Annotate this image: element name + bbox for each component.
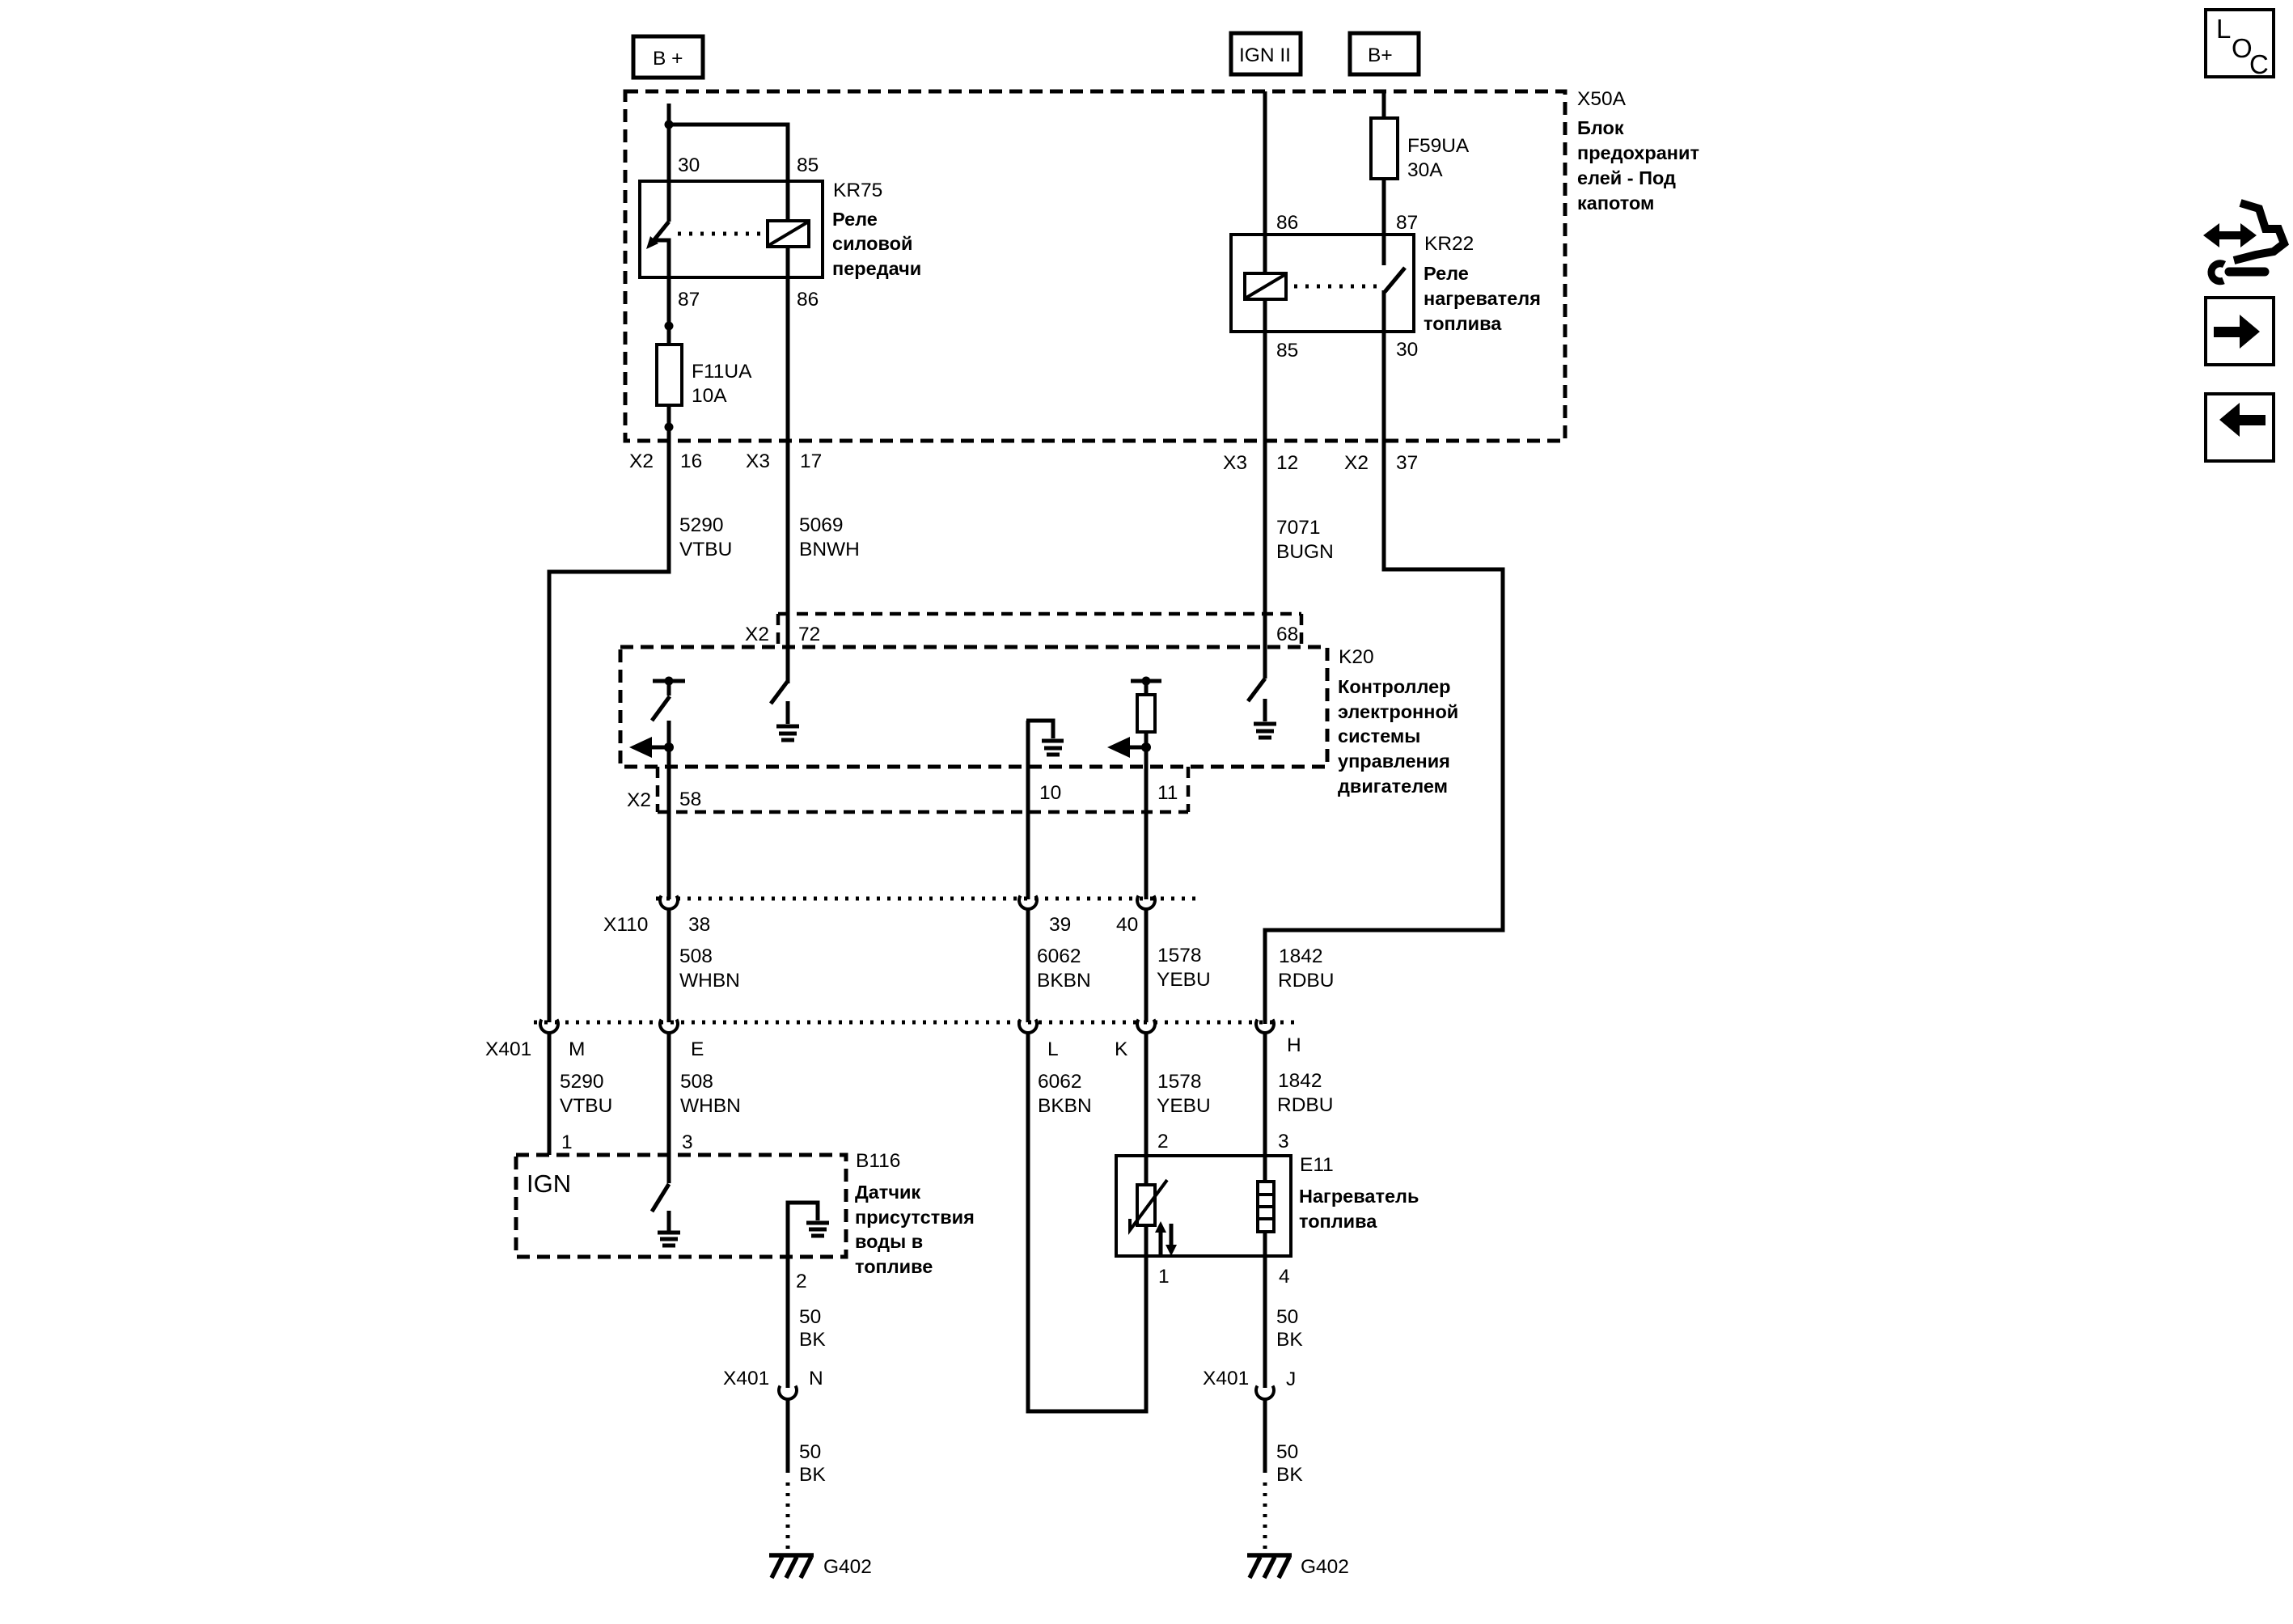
- dotted wire to ground left: [786, 1482, 790, 1550]
- svg-text:E11: E11: [1300, 1154, 1334, 1176]
- svg-text:B116: B116: [856, 1150, 900, 1172]
- nav arrow right box: [2206, 298, 2274, 365]
- wire B+1 drop: [667, 104, 671, 183]
- E11 pin2 wire inside: [1144, 1225, 1149, 1256]
- wire KR75 pin 86 down: [786, 247, 790, 442]
- wire IGN II drop to KR22 pin 86: [1263, 91, 1267, 274]
- svg-text:BK: BK: [799, 1464, 826, 1486]
- connector bump X401-M: [540, 1020, 558, 1034]
- connector bump X401-H: [1256, 1020, 1274, 1034]
- svg-text:E: E: [691, 1038, 704, 1060]
- svg-text:KR75: KR75: [833, 180, 882, 201]
- wire 1842 feed from X2-37 around K20: [1265, 442, 1503, 1024]
- svg-text:Реле: Реле: [832, 209, 878, 230]
- ground symbol under pin 72 switch: [776, 726, 799, 740]
- svg-text:передачи: передачи: [832, 258, 921, 279]
- svg-text:присутствия: присутствия: [855, 1207, 975, 1228]
- dotted wire to ground right: [1263, 1482, 1267, 1550]
- svg-text:X2: X2: [629, 450, 654, 472]
- svg-text:F59UA: F59UA: [1407, 135, 1470, 157]
- relay KR75 coil: [768, 221, 809, 247]
- svg-text:RDBU: RDBU: [1277, 1094, 1333, 1116]
- svg-text:X401: X401: [485, 1038, 531, 1060]
- wire to KR75 coil pin 85: [669, 125, 788, 222]
- svg-text:1: 1: [1158, 1266, 1170, 1288]
- relay KR75 fixed contact to pin 87: [652, 240, 669, 345]
- label Реле силовой передачи: [832, 209, 921, 279]
- svg-text:508: 508: [679, 945, 713, 967]
- nav arrow left box: [2206, 394, 2274, 461]
- heater E11 box: [1116, 1156, 1291, 1256]
- connector row X401 dotted: [534, 1021, 1294, 1025]
- K20 internal resistor pin 11: [1131, 681, 1161, 899]
- power feed B+ box 2: [1350, 33, 1419, 74]
- svg-text:2: 2: [796, 1271, 807, 1292]
- svg-text:силовой: силовой: [832, 233, 912, 254]
- svg-text:16: 16: [680, 450, 702, 472]
- svg-text:BUGN: BUGN: [1276, 541, 1334, 563]
- svg-text:VTBU: VTBU: [679, 539, 732, 560]
- power feed IGN II box: [1231, 33, 1301, 74]
- svg-text:5069: 5069: [799, 514, 844, 536]
- wire 50 BK to G402 left: [786, 1399, 790, 1473]
- svg-text:10A: 10A: [692, 385, 727, 407]
- svg-text:508: 508: [680, 1071, 713, 1093]
- svg-text:топливе: топливе: [855, 1256, 933, 1277]
- E11 pin4 wire inside: [1263, 1232, 1267, 1256]
- wire below fuse F11UA: [667, 405, 671, 442]
- svg-text:H: H: [1287, 1034, 1301, 1056]
- svg-text:1: 1: [561, 1131, 573, 1153]
- svg-text:BNWH: BNWH: [799, 539, 860, 560]
- svg-text:WHBN: WHBN: [679, 970, 740, 992]
- svg-text:85: 85: [797, 154, 819, 176]
- label Нагреватель топлива: [1299, 1186, 1419, 1232]
- K20 internal switch pin 68 to ground: [1248, 679, 1265, 721]
- svg-text:топлива: топлива: [1424, 313, 1502, 334]
- controller K20 dashed box: [620, 647, 1327, 767]
- K20 top pin row dashed: [778, 614, 1301, 647]
- svg-text:58: 58: [679, 789, 701, 810]
- svg-text:WHBN: WHBN: [680, 1095, 741, 1117]
- svg-text:X401: X401: [723, 1368, 769, 1389]
- wire 5069 BNWH run into K20 pin 72: [786, 442, 790, 683]
- wire 1578 YEBU mid segment: [1144, 909, 1149, 1022]
- B116 pin 2 hook ground: [788, 1203, 829, 1258]
- svg-text:85: 85: [1276, 340, 1298, 362]
- service icon wrench with arrows: [2203, 203, 2284, 281]
- ground symbol pin 10: [1042, 741, 1064, 755]
- label Реле нагревателя топлива: [1424, 263, 1541, 334]
- connector bump X401-L: [1019, 1020, 1037, 1034]
- wire F59UA to KR22 pin 87: [1382, 179, 1386, 235]
- svg-text:7071: 7071: [1276, 517, 1321, 539]
- svg-text:38: 38: [688, 914, 710, 936]
- svg-text:B+: B+: [1368, 44, 1393, 66]
- svg-text:елей - Под: елей - Под: [1577, 167, 1676, 188]
- svg-text:KR22: KR22: [1424, 233, 1474, 255]
- svg-text:воды в: воды в: [855, 1231, 923, 1252]
- svg-text:72: 72: [798, 624, 820, 645]
- svg-text:30: 30: [1396, 339, 1418, 361]
- svg-text:87: 87: [1396, 212, 1418, 234]
- svg-text:двигателем: двигателем: [1338, 776, 1448, 797]
- connector bump X110-39: [1019, 896, 1037, 910]
- wire M to B116 pin1: [548, 1033, 552, 1155]
- svg-text:30: 30: [678, 154, 700, 176]
- svg-text:G402: G402: [1301, 1556, 1349, 1578]
- svg-text:X3: X3: [746, 450, 770, 472]
- E11 thermistor: [1130, 1180, 1167, 1230]
- ground symbol under pin 68 switch: [1254, 724, 1276, 738]
- svg-text:K20: K20: [1339, 646, 1374, 668]
- E11 heating element: [1258, 1182, 1274, 1232]
- svg-text:1578: 1578: [1157, 945, 1202, 966]
- svg-text:37: 37: [1396, 452, 1418, 474]
- fuse F59UA wire from B+2: [1382, 91, 1386, 118]
- svg-text:68: 68: [1276, 624, 1298, 645]
- connector bump X401-E: [660, 1020, 678, 1034]
- svg-text:топлива: топлива: [1299, 1211, 1377, 1232]
- svg-text:BK: BK: [799, 1329, 826, 1351]
- svg-text:BKBN: BKBN: [1038, 1095, 1092, 1117]
- svg-text:1842: 1842: [1279, 945, 1323, 967]
- svg-text:Нагреватель: Нагреватель: [1299, 1186, 1419, 1207]
- svg-text:управления: управления: [1338, 751, 1450, 772]
- svg-text:50: 50: [799, 1306, 821, 1328]
- svg-text:50: 50: [799, 1441, 821, 1463]
- svg-text:10: 10: [1039, 782, 1061, 804]
- svg-text:X2: X2: [627, 789, 651, 811]
- svg-text:50: 50: [1276, 1306, 1298, 1328]
- svg-text:BK: BK: [1276, 1329, 1303, 1351]
- wire 50 BK to G402 right: [1263, 1399, 1267, 1473]
- wire 6062 BKBN mid segment: [1026, 909, 1030, 1022]
- node junction below fuse: [665, 423, 674, 432]
- relay KR75 switch arrowhead: [646, 236, 658, 249]
- svg-text:YEBU: YEBU: [1157, 969, 1211, 991]
- svg-text:IGN: IGN: [527, 1169, 571, 1198]
- relay KR75 coil link dotted: [678, 232, 768, 236]
- node dot pin 11 wire: [1141, 742, 1151, 752]
- ground G402 left: [769, 1555, 814, 1578]
- node junction above fuse F11UA: [665, 322, 674, 331]
- arrow to left edge pin 58: [647, 746, 669, 750]
- label Блок предохранителей - Под капотом: [1577, 117, 1699, 214]
- label Датчик присутствия воды в топливе: [855, 1182, 975, 1277]
- svg-text:J: J: [1286, 1368, 1296, 1390]
- svg-text:1578: 1578: [1157, 1071, 1202, 1093]
- K20 internal hook ground pin 10: [1026, 721, 1053, 899]
- wire 50 BK from B116 pin 2: [786, 1258, 790, 1388]
- svg-text:1842: 1842: [1278, 1070, 1322, 1092]
- svg-text:YEBU: YEBU: [1157, 1095, 1211, 1117]
- label Контроллер электронной системы управления двигателем: [1338, 676, 1458, 797]
- E11 level arrows: [1155, 1221, 1177, 1256]
- svg-text:IGN II: IGN II: [1239, 44, 1291, 66]
- connector bump X110-40: [1137, 896, 1155, 910]
- svg-text:X2: X2: [745, 624, 769, 645]
- K20 internal switch pin 72 to ground: [771, 681, 788, 724]
- svg-text:6062: 6062: [1037, 945, 1081, 967]
- svg-text:5290: 5290: [679, 514, 724, 536]
- relay KR22 coil link dotted: [1294, 285, 1377, 289]
- svg-text:86: 86: [1276, 212, 1298, 234]
- connector bump X401-K: [1137, 1020, 1155, 1034]
- svg-text:50: 50: [1276, 1441, 1298, 1463]
- svg-text:L: L: [1047, 1038, 1059, 1060]
- wire 5290 VTBU run to X401 M: [549, 442, 669, 1022]
- wire KR22 pin 85 down: [1263, 299, 1267, 442]
- node junction B+ split: [665, 121, 674, 129]
- svg-text:3: 3: [682, 1131, 693, 1153]
- svg-text:5290: 5290: [560, 1071, 604, 1093]
- svg-text:X3: X3: [1223, 452, 1247, 474]
- svg-text:B +: B +: [653, 48, 683, 70]
- wire K to E11 pin2: [1144, 1033, 1149, 1185]
- node dot pin58 wire: [664, 742, 674, 752]
- svg-text:6062: 6062: [1038, 1071, 1082, 1093]
- svg-text:F11UA: F11UA: [692, 361, 752, 383]
- svg-text:предохранит: предохранит: [1577, 142, 1699, 163]
- svg-text:BKBN: BKBN: [1037, 970, 1091, 992]
- svg-text:40: 40: [1116, 914, 1138, 936]
- svg-text:C: C: [2249, 49, 2269, 79]
- svg-text:RDBU: RDBU: [1278, 970, 1334, 992]
- svg-text:нагревателя: нагревателя: [1424, 288, 1541, 309]
- relay KR22 box: [1231, 235, 1414, 332]
- node dot resistor top: [1142, 677, 1151, 686]
- fuse F59UA: [1371, 118, 1398, 179]
- node dot on switch bar: [665, 677, 674, 686]
- sensor B116 dashed box: [516, 1155, 846, 1257]
- svg-text:X50A: X50A: [1577, 88, 1627, 110]
- svg-text:17: 17: [800, 450, 822, 472]
- connector row X110 dotted: [656, 897, 1195, 901]
- svg-text:X2: X2: [1344, 452, 1369, 474]
- fuse block X50A dashed box: [625, 91, 1565, 441]
- relay KR75 box: [640, 181, 823, 277]
- fuse F11UA: [657, 345, 682, 405]
- svg-text:N: N: [809, 1368, 823, 1389]
- relay KR75 switch pin30: [652, 181, 669, 243]
- wire 7071 BUGN run into K20 pin 68: [1263, 442, 1267, 679]
- svg-text:BK: BK: [1276, 1464, 1303, 1486]
- svg-text:Контроллер: Контроллер: [1338, 676, 1451, 697]
- B116 switch blade pin 3: [652, 1184, 669, 1212]
- svg-text:капотом: капотом: [1577, 192, 1654, 214]
- svg-text:Датчик: Датчик: [855, 1182, 920, 1203]
- svg-text:G402: G402: [823, 1556, 872, 1578]
- svg-text:2: 2: [1157, 1131, 1169, 1152]
- K20 internal switch for pin 58: [652, 681, 685, 899]
- svg-text:11: 11: [1157, 782, 1178, 804]
- svg-text:Реле: Реле: [1424, 263, 1469, 284]
- B116 ground under switch: [658, 1211, 680, 1245]
- wire E to B116 pin3: [667, 1033, 671, 1183]
- svg-text:12: 12: [1276, 452, 1298, 474]
- svg-text:VTBU: VTBU: [560, 1095, 612, 1117]
- svg-text:X401: X401: [1203, 1368, 1249, 1389]
- svg-text:K: K: [1115, 1038, 1128, 1060]
- LOC legend box: [2206, 10, 2274, 77]
- relay KR22 switch pin 87: [1384, 235, 1405, 442]
- power feed B+ box 1: [633, 36, 703, 78]
- wire 50 BK from E11 pin 4: [1263, 1256, 1267, 1388]
- svg-text:4: 4: [1279, 1266, 1290, 1288]
- svg-text:X110: X110: [603, 914, 648, 936]
- svg-text:86: 86: [797, 289, 819, 311]
- wire L loop to E11 pin1: [1028, 1033, 1146, 1411]
- K20 bottom pin row dashed: [658, 767, 1188, 812]
- svg-text:87: 87: [678, 289, 700, 311]
- svg-text:30A: 30A: [1407, 159, 1443, 181]
- svg-text:системы: системы: [1338, 725, 1420, 746]
- relay KR22 coil: [1245, 273, 1286, 299]
- svg-text:Блок: Блок: [1577, 117, 1624, 138]
- arrow left pin 11: [1127, 746, 1146, 750]
- svg-text:3: 3: [1278, 1131, 1289, 1152]
- connector bump X110-38: [660, 896, 678, 910]
- wire H to E11 pin3: [1263, 1033, 1267, 1182]
- wire 508 WHBN mid segment: [667, 909, 671, 1022]
- svg-text:L: L: [2216, 14, 2231, 44]
- ground G402 right: [1247, 1555, 1292, 1578]
- svg-text:M: M: [569, 1038, 585, 1060]
- svg-text:электронной: электронной: [1338, 701, 1458, 722]
- svg-text:39: 39: [1049, 914, 1071, 936]
